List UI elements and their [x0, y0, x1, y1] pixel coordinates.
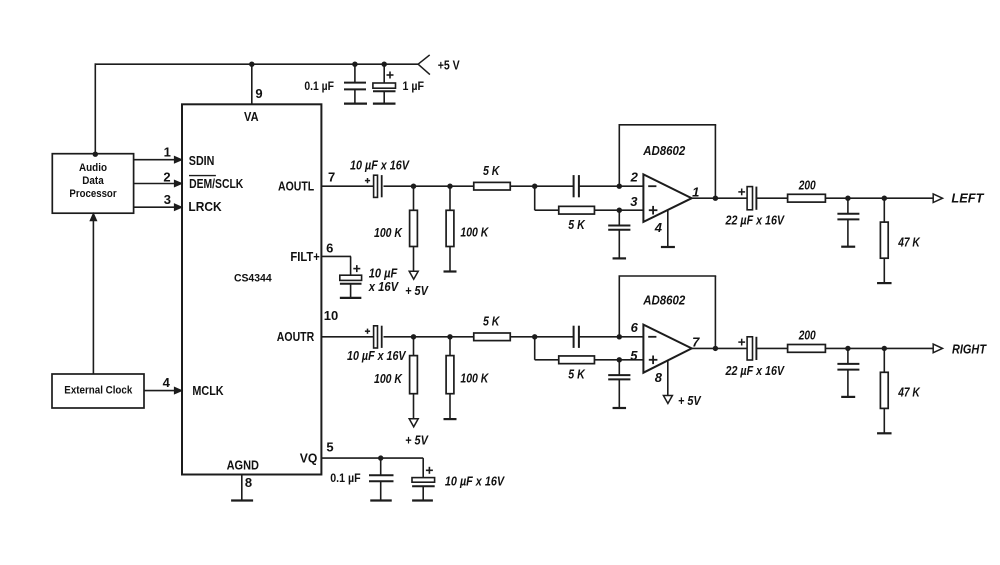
- node bias tap 2 left: [447, 184, 452, 189]
- svg-text:MCLK: MCLK: [192, 383, 224, 398]
- node VA-rail junction: [249, 61, 254, 66]
- power +5V triangle left bias: [409, 271, 418, 279]
- svg-text:LRCK: LRCK: [188, 199, 222, 214]
- resistor 5K feedback right: [559, 356, 595, 364]
- svg-text:4: 4: [654, 220, 663, 235]
- svg-text:VQ: VQ: [300, 450, 318, 465]
- capacitor 22uF output left: [747, 187, 752, 210]
- node output cap tap right: [845, 346, 850, 351]
- wire AOUTR to coupling cap: [321, 336, 373, 338]
- wire 200 to output left: [825, 197, 933, 199]
- node VQ tap: [378, 455, 383, 460]
- node opamp output right: [713, 346, 718, 351]
- svg-text:DEM/SCLK: DEM/SCLK: [189, 176, 244, 191]
- wire cap to inverting input right: [579, 336, 644, 338]
- capacitor output filter right: [847, 348, 849, 364]
- svg-text:CS4344: CS4344: [234, 273, 273, 285]
- svg-text:100 K: 100 K: [460, 372, 489, 386]
- svg-text:10 µF x 16V: 10 µF x 16V: [347, 349, 407, 363]
- node noninverting input left: [617, 208, 622, 213]
- svg-text:5: 5: [630, 348, 638, 363]
- svg-text:100 K: 100 K: [460, 226, 489, 240]
- wire cap to inverting input left: [579, 185, 644, 187]
- feedback loop wire left: [618, 125, 620, 186]
- svg-text:Data: Data: [82, 175, 103, 187]
- svg-text:LEFT: LEFT: [951, 191, 984, 206]
- capacitor at noninverting input right: [618, 360, 620, 375]
- ground bar 0.1uF: [344, 102, 367, 104]
- +5V source chevron: [418, 55, 430, 64]
- wire 5K feedback to noninverting input left: [595, 209, 644, 211]
- wire AOUTL to coupling cap: [321, 185, 373, 187]
- svg-text:7: 7: [692, 335, 700, 350]
- wire FILT+ pin 6: [321, 255, 351, 257]
- ground bar 47K right: [877, 432, 892, 434]
- node inverting input right: [617, 334, 622, 339]
- wire series cap to 5K left: [384, 185, 474, 187]
- svg-text:0.1 µF: 0.1 µF: [330, 473, 360, 485]
- node 1uF tap: [382, 61, 387, 66]
- svg-text:+ 5V: + 5V: [678, 394, 702, 408]
- svg-text:5: 5: [326, 440, 333, 455]
- svg-text:+5 V: +5 V: [438, 58, 460, 73]
- capacitor 10uF series left: [374, 175, 378, 197]
- resistor 5K series right: [474, 333, 511, 341]
- capacitor coupling to opamp right: [573, 326, 575, 348]
- plus mark series cap left: [365, 180, 370, 182]
- power +5V triangle opamp right: [663, 396, 672, 404]
- capacitor coupling to opamp left: [573, 175, 575, 197]
- capacitor 0.1uF (VA supply): [354, 64, 356, 82]
- svg-text:5 K: 5 K: [483, 315, 500, 329]
- resistor 5K feedback left: [559, 206, 595, 214]
- wire VQ pin 5: [321, 457, 423, 459]
- svg-text:6: 6: [631, 320, 639, 335]
- svg-text:RIGHT: RIGHT: [952, 341, 987, 356]
- ground bar 47K left: [877, 282, 892, 284]
- capacitor 22uF output right: [747, 337, 752, 360]
- svg-text:Audio: Audio: [79, 162, 107, 174]
- svg-text:4: 4: [163, 375, 171, 390]
- node bias tap 1 right: [411, 334, 416, 339]
- resistor 200 left: [788, 194, 826, 202]
- op-amp U2A AD8602 left: [643, 174, 691, 222]
- svg-text:AOUTL: AOUTL: [278, 178, 314, 193]
- ground bar 1uF: [373, 102, 396, 104]
- block External Clock: [52, 374, 144, 408]
- svg-text:6: 6: [326, 241, 333, 256]
- svg-text:VA: VA: [244, 109, 259, 124]
- resistor 5K series left: [474, 182, 511, 190]
- power +5V triangle right bias: [409, 419, 418, 427]
- svg-text:10 µF x 16V: 10 µF x 16V: [445, 474, 506, 488]
- svg-text:2: 2: [163, 170, 170, 185]
- wire VA pin 9: [251, 64, 253, 104]
- svg-text:47 K: 47 K: [897, 235, 920, 249]
- svg-text:9: 9: [255, 86, 262, 101]
- svg-text:+ 5V: + 5V: [405, 434, 429, 448]
- resistor 100K to +5V left: [413, 186, 415, 210]
- wire AGND pin 8: [241, 475, 243, 501]
- output arrow left: [933, 194, 942, 203]
- svg-text:8: 8: [655, 370, 663, 385]
- node opamp output left: [713, 196, 718, 201]
- ground bar 100K left: [444, 270, 457, 272]
- svg-text:AD8602: AD8602: [642, 293, 686, 308]
- node inverting input left: [617, 184, 622, 189]
- wire LRCK (pin3): [134, 206, 175, 208]
- wire 5K feedback to noninverting input right: [595, 359, 644, 361]
- ground bar FILT cap: [340, 297, 362, 299]
- wire 22uF to 200 left: [756, 197, 787, 199]
- resistor 47K left: [883, 198, 885, 222]
- opamp power pin wire left: [667, 210, 669, 247]
- wire 5K to coupling cap right: [510, 336, 573, 338]
- svg-text:8: 8: [245, 475, 252, 490]
- wire clock to processor: [92, 219, 94, 374]
- capacitor 1uF electrolytic (VA supply): [383, 64, 385, 83]
- ground bar 100K right: [444, 418, 457, 420]
- svg-text:5 K: 5 K: [483, 164, 500, 178]
- resistor 100K to gnd right: [449, 337, 451, 356]
- plus mark 1uF: [387, 74, 394, 76]
- wire output to 22uF right: [692, 347, 747, 349]
- svg-text:x 16V: x 16V: [368, 280, 400, 294]
- block Audio Data Processor: [52, 154, 133, 214]
- svg-text:10: 10: [324, 308, 338, 323]
- svg-text:22 µF x 16V: 22 µF x 16V: [725, 364, 786, 378]
- svg-text:AGND: AGND: [227, 458, 259, 473]
- wire 22uF to 200 right: [756, 347, 787, 349]
- op-amp U2B AD8602 right: [643, 325, 691, 373]
- plus mark series cap right: [365, 330, 370, 332]
- svg-text:100 K: 100 K: [374, 226, 403, 240]
- ground bar opamp left: [661, 246, 675, 248]
- svg-text:External Clock: External Clock: [64, 385, 132, 397]
- svg-text:AOUTR: AOUTR: [277, 329, 315, 344]
- wire series cap to 5K right: [384, 336, 474, 338]
- node output cap tap left: [845, 196, 850, 201]
- svg-text:5 K: 5 K: [568, 368, 585, 382]
- ground bar AGND: [231, 499, 253, 501]
- wire SDIN (pin1): [134, 159, 175, 161]
- svg-text:22 µF x 16V: 22 µF x 16V: [725, 214, 786, 228]
- ground bar output cap right: [841, 396, 855, 398]
- node 0.1uF tap: [352, 61, 357, 66]
- feedback loop wire right: [618, 276, 620, 337]
- node 47K tap right: [882, 346, 887, 351]
- svg-text:2: 2: [630, 170, 639, 185]
- svg-text:200: 200: [798, 329, 816, 343]
- svg-text:1: 1: [692, 184, 699, 199]
- svg-text:7: 7: [328, 169, 335, 184]
- ground bar output cap left: [841, 246, 855, 248]
- resistor 100K to +5V right: [413, 337, 415, 356]
- wire DEM/SCLK (pin2): [134, 183, 175, 185]
- capacitor 0.1uF VQ: [380, 458, 382, 475]
- svg-text:100 K: 100 K: [374, 372, 403, 386]
- node ADP supply junction: [93, 152, 98, 157]
- opamp power pin wire right: [667, 360, 669, 395]
- svg-text:3: 3: [164, 192, 171, 207]
- node bias tap 1 left: [411, 184, 416, 189]
- svg-text:0.1 µF: 0.1 µF: [304, 81, 334, 93]
- resistor 200 right: [788, 345, 826, 353]
- resistor 47K right: [883, 348, 885, 372]
- svg-text:200: 200: [798, 179, 816, 193]
- plus mark 22uF right: [738, 341, 745, 343]
- node feedback tap left: [532, 184, 537, 189]
- ground bar input cap left: [613, 257, 627, 259]
- node 47K tap left: [882, 196, 887, 201]
- capacitor 10uF FILT+ electrolytic: [340, 275, 362, 280]
- svg-text:10 µF x 16V: 10 µF x 16V: [350, 159, 410, 173]
- ground bar input cap right: [613, 407, 627, 409]
- wire feedback lower path right: [534, 337, 536, 360]
- svg-text:3: 3: [630, 194, 638, 209]
- wire +5V supply rail: [94, 63, 96, 154]
- output arrow right: [933, 344, 942, 353]
- plus mark VQ cap: [426, 469, 433, 471]
- capacitor 10uF series right: [374, 326, 378, 348]
- capacitor 10uF VQ electrolytic: [412, 478, 435, 483]
- wire 200 to output right: [825, 347, 933, 349]
- wire output to 22uF left: [692, 197, 747, 199]
- svg-text:1: 1: [164, 144, 171, 159]
- svg-text:AD8602: AD8602: [642, 143, 686, 158]
- svg-text:SDIN: SDIN: [189, 153, 215, 168]
- capacitor at noninverting input left: [618, 210, 620, 225]
- svg-text:1 µF: 1 µF: [403, 81, 425, 93]
- capacitor output filter left: [847, 198, 849, 214]
- svg-text:5 K: 5 K: [568, 218, 585, 232]
- svg-text:FILT+: FILT+: [290, 249, 320, 264]
- svg-text:Processor: Processor: [69, 188, 116, 200]
- node feedback tap right: [532, 334, 537, 339]
- resistor 100K to gnd left: [449, 186, 451, 210]
- ground bar 0.1uF VQ: [370, 499, 392, 501]
- svg-text:10 µF: 10 µF: [369, 266, 398, 280]
- node noninverting input right: [617, 357, 622, 362]
- wire MCLK (pin4): [144, 390, 175, 392]
- plus mark FILT cap: [353, 268, 360, 270]
- svg-text:47 K: 47 K: [897, 386, 920, 400]
- svg-text:+ 5V: + 5V: [405, 284, 429, 298]
- node bias tap 2 right: [447, 334, 452, 339]
- wire feedback lower path left: [534, 186, 536, 210]
- ground bar 10uF VQ: [412, 499, 433, 501]
- IC U1 CS4344: [182, 104, 321, 474]
- plus mark 22uF left: [738, 191, 745, 193]
- wire 5K to coupling cap left: [510, 185, 573, 187]
